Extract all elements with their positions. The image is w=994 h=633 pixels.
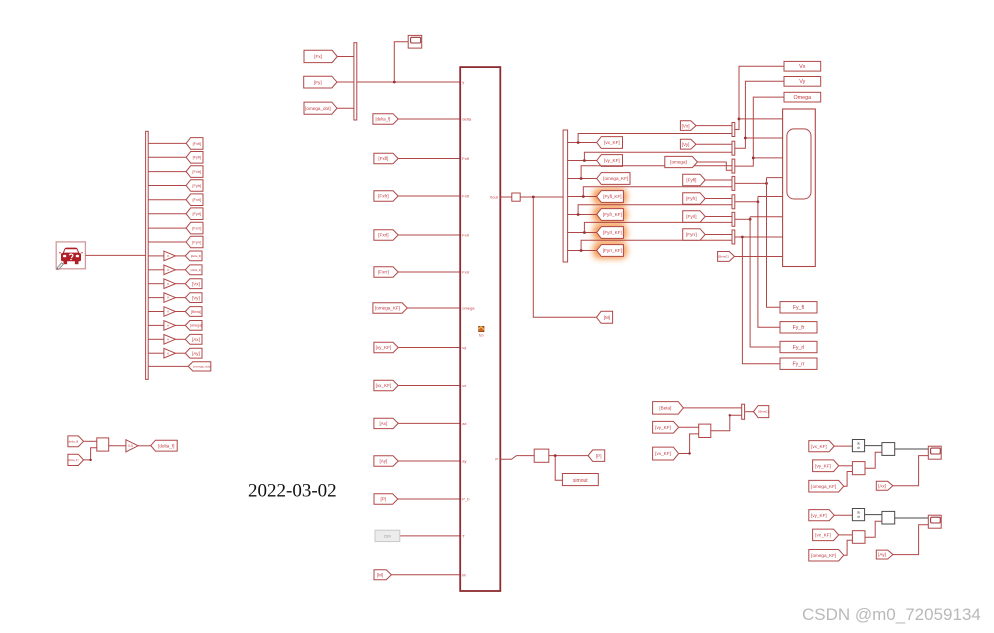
- svg-text:[Fyrr_KF]: [Fyrr_KF]: [603, 248, 622, 253]
- svg-text:K: K: [167, 310, 169, 314]
- svg-text:y: y: [462, 80, 464, 85]
- svg-text:simout: simout: [573, 478, 588, 484]
- svg-text:P_b: P_b: [462, 497, 470, 502]
- svg-text:[Fx]: [Fx]: [314, 54, 322, 59]
- svg-text:[BetaC]: [BetaC]: [718, 255, 728, 259]
- svg-text:dt: dt: [857, 446, 860, 450]
- svg-text:P: P: [495, 457, 498, 462]
- svg-text:[vx_KF]: [vx_KF]: [815, 533, 831, 538]
- svg-text:[Vx]: [Vx]: [192, 281, 200, 286]
- svg-text:[omega_dot]: [omega_dot]: [305, 106, 331, 111]
- svg-text:[delta_fl]: [delta_fl]: [68, 439, 78, 443]
- svg-text:[Fxfl]: [Fxfl]: [193, 141, 201, 146]
- svg-text:K: K: [167, 282, 169, 286]
- svg-text:ay: ay: [462, 459, 466, 464]
- svg-text:[vy_KF]: [vy_KF]: [376, 345, 392, 350]
- svg-text:du: du: [857, 511, 861, 515]
- svg-text:[Ax]: [Ax]: [192, 337, 200, 342]
- svg-text:[Vy]: [Vy]: [192, 295, 200, 300]
- svg-text:Fxfl: Fxfl: [462, 156, 469, 161]
- svg-text:[Fyfr]: [Fyfr]: [192, 183, 201, 188]
- svg-text:omega: omega: [462, 306, 475, 311]
- svg-text:[omega]: [omega]: [670, 160, 687, 165]
- svg-text:[omega_dot]: [omega_dot]: [193, 365, 210, 369]
- svg-text:Xout: Xout: [490, 194, 499, 199]
- svg-text:[Fxrl]: [Fxrl]: [378, 233, 388, 238]
- svg-text:[Fyrl]: [Fyrl]: [686, 214, 696, 219]
- svg-text:K: K: [167, 351, 169, 355]
- svg-text:[Beta]: [Beta]: [191, 310, 201, 314]
- svg-text:[Beta]: [Beta]: [659, 406, 671, 411]
- svg-text:[Fyfl]: [Fyfl]: [193, 155, 201, 160]
- svg-text:[BetaC]: [BetaC]: [758, 410, 768, 414]
- svg-text:K: K: [167, 337, 169, 341]
- svg-text:[Fxrr]: [Fxrr]: [378, 270, 389, 275]
- svg-text:[Ay]: [Ay]: [192, 351, 200, 356]
- svg-text:2022-03-02: 2022-03-02: [248, 481, 337, 502]
- svg-text:[omega_KF]: [omega_KF]: [811, 484, 836, 489]
- svg-text:[vx_KF]: [vx_KF]: [604, 140, 620, 145]
- svg-text:ax: ax: [462, 421, 466, 426]
- svg-text:0.5: 0.5: [128, 444, 133, 448]
- svg-text:[P]: [P]: [596, 453, 602, 458]
- svg-text:[vx_KF]: [vx_KF]: [811, 444, 827, 449]
- svg-text:Fy_rl: Fy_rl: [793, 345, 805, 351]
- svg-text:[Ax]: [Ax]: [878, 483, 886, 488]
- svg-text:[Fyfr_KF]: [Fyfr_KF]: [603, 212, 622, 217]
- svg-text:delta: delta: [462, 117, 471, 122]
- svg-text:[M]: [M]: [604, 315, 610, 320]
- svg-text:[Ay]: [Ay]: [379, 459, 387, 464]
- svg-text:[vy_KF]: [vy_KF]: [604, 158, 620, 163]
- svg-text:K: K: [167, 296, 169, 300]
- svg-text:[Fy]: [Fy]: [314, 80, 322, 85]
- svg-text:fcn: fcn: [479, 334, 484, 338]
- svg-text:Vx: Vx: [799, 64, 806, 70]
- svg-text:[Ax]: [Ax]: [379, 421, 387, 426]
- svg-text:[omega]: [omega]: [190, 324, 202, 328]
- svg-text:[vy_KF]: [vy_KF]: [655, 425, 671, 430]
- svg-text:[Fyfr]: [Fyfr]: [686, 196, 696, 201]
- svg-text:vy: vy: [462, 345, 466, 350]
- svg-text:[Fyrr]: [Fyrr]: [686, 232, 697, 237]
- svg-text:Fy_rr: Fy_rr: [792, 362, 804, 368]
- svg-text:Omega: Omega: [793, 95, 811, 101]
- svg-text:K: K: [167, 268, 169, 272]
- svg-text:[delta_fr]: [delta_fr]: [68, 458, 79, 462]
- svg-text:[Fxrr]: [Fxrr]: [192, 226, 201, 231]
- svg-text:Fxrr: Fxrr: [462, 270, 470, 275]
- svg-text:K: K: [167, 254, 169, 258]
- svg-text:[Fyfl]: [Fyfl]: [686, 178, 696, 183]
- svg-text:[vy_KF]: [vy_KF]: [815, 463, 831, 468]
- svg-text:[Fyrl]: [Fyrl]: [192, 211, 201, 216]
- svg-text:[vy_KF]: [vy_KF]: [811, 513, 827, 518]
- svg-text:[Fyrr]: [Fyrr]: [192, 239, 201, 244]
- svg-text:[Fxfl]: [Fxfl]: [378, 156, 388, 161]
- svg-text:[omega_KF]: [omega_KF]: [811, 553, 836, 558]
- svg-text:[Fxfr]: [Fxfr]: [192, 169, 201, 174]
- svg-text:dt: dt: [857, 515, 860, 519]
- svg-text:[P]: [P]: [380, 497, 386, 502]
- svg-text:[Fyrl_KF]: [Fyrl_KF]: [603, 230, 622, 235]
- svg-text:Fxrl: Fxrl: [462, 233, 469, 238]
- svg-text:[M]: [M]: [377, 572, 383, 577]
- svg-text:1500: 1500: [384, 535, 392, 539]
- svg-text:CSDN @m0_72059134: CSDN @m0_72059134: [802, 605, 981, 624]
- svg-text:[delta_fl]: [delta_fl]: [191, 254, 201, 258]
- svg-text:[Vx]: [Vx]: [682, 123, 690, 128]
- svg-text:K: K: [167, 324, 169, 328]
- svg-text:Vy: Vy: [799, 79, 805, 85]
- svg-text:[vx_KF]: [vx_KF]: [376, 383, 392, 388]
- svg-text:[delta_fr]: [delta_fr]: [191, 268, 202, 272]
- svg-text:[Fyfl_KF]: [Fyfl_KF]: [603, 194, 621, 199]
- svg-text:vx: vx: [462, 383, 466, 388]
- svg-text:[Fxfr]: [Fxfr]: [378, 194, 388, 199]
- svg-text:[vx_KF]: [vx_KF]: [655, 451, 671, 456]
- svg-text:du: du: [857, 442, 861, 446]
- svg-text:[omega_KF]: [omega_KF]: [603, 176, 628, 181]
- svg-text:[Ay]: [Ay]: [878, 552, 886, 557]
- svg-text:[omega_KF]: [omega_KF]: [375, 306, 400, 311]
- svg-text:[Fxrl]: [Fxrl]: [192, 197, 201, 202]
- svg-text:Fy_fl: Fy_fl: [793, 305, 804, 311]
- svg-text:Fxfr: Fxfr: [462, 194, 470, 199]
- svg-text:Fy_fr: Fy_fr: [793, 325, 805, 331]
- svg-text:[Vy]: [Vy]: [682, 142, 690, 147]
- svg-text:M: M: [462, 572, 465, 577]
- svg-text:[delta_f]: [delta_f]: [158, 443, 174, 448]
- svg-text:[delta_f]: [delta_f]: [375, 117, 390, 122]
